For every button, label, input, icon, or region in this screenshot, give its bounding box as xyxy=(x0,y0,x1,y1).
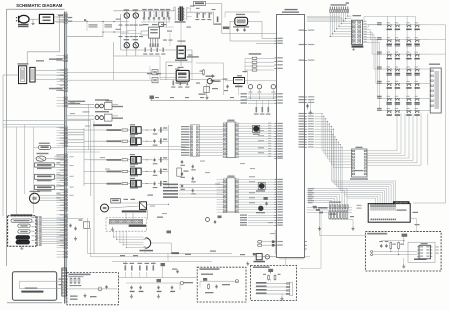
svg-text:SCHEMATIC DIAGRAM: SCHEMATIC DIAGRAM xyxy=(16,3,63,8)
svg-text:OPTION PORT: OPTION PORT xyxy=(395,202,409,204)
